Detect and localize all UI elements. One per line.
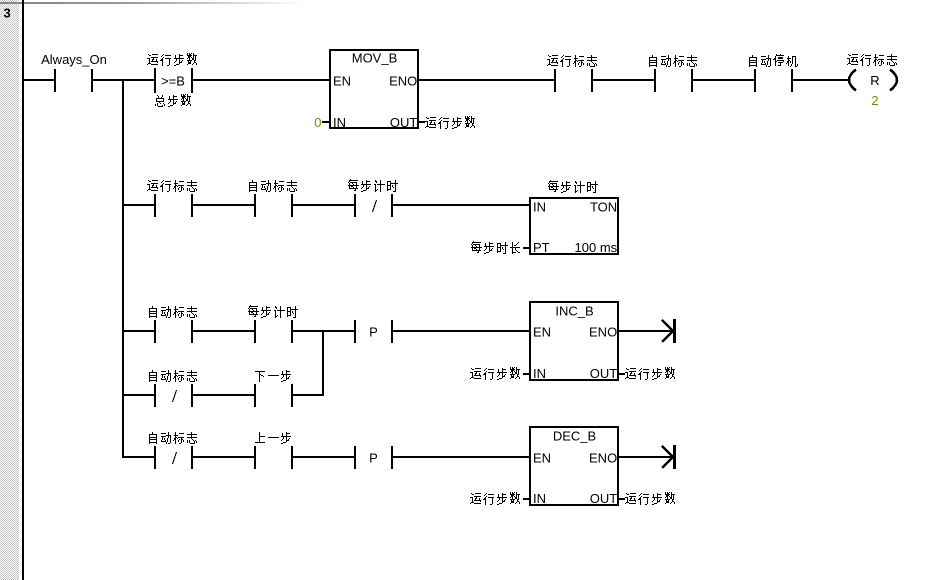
contact 自动标志 rung2 (NO): [249, 180, 297, 217]
svg-text:PT: PT: [533, 240, 550, 255]
wire 运行标志 to contact 自动标志: [593, 79, 654, 81]
svg-text:MOV_B: MOV_B: [352, 51, 398, 66]
svg-text:TON: TON: [590, 200, 617, 215]
contact 自动标志 (NO): [649, 55, 697, 92]
svg-text:OUT: OUT: [590, 491, 618, 506]
network margin strip (dithered): [0, 0, 19, 580]
wire to contact 自动标志 rung2: [193, 204, 254, 206]
left power rail: [22, 0, 24, 580]
svg-text:2: 2: [871, 93, 878, 108]
contact 自动停机 (NO): [749, 54, 798, 92]
wire to contact 上一步: [193, 456, 254, 458]
svg-text:EN: EN: [533, 451, 551, 466]
contact 运行标志 rung2 (NO): [147, 180, 197, 217]
branch power rail (vertical): [122, 79, 124, 458]
wire contact 每步计时 to TON box: [393, 204, 530, 206]
wire to contact 每步计时 rung2: [293, 204, 354, 206]
open branch arrow rung3: [662, 319, 676, 343]
box TON timer 每步计时: [530, 180, 618, 255]
label 运行步数 at DEC_B IN: [470, 492, 520, 505]
svg-text:EN: EN: [333, 74, 351, 89]
svg-text:P: P: [369, 325, 378, 340]
OR branch wire (vertical): [322, 330, 324, 396]
svg-text:OUT: OUT: [590, 366, 618, 381]
label 运行步数 at MOV_B OUT: [425, 116, 475, 129]
svg-text:100 ms: 100 ms: [575, 240, 618, 255]
wire MOV_B ENO to contact 运行标志: [418, 79, 554, 81]
contact 自动标志 rung3 (NO): [149, 306, 197, 343]
contact 每步计时 rung3 (NO): [248, 305, 298, 343]
svg-text:EN: EN: [533, 325, 551, 340]
coil R (reset) 运行标志: [847, 54, 897, 91]
network separator line: [0, 2, 320, 4]
junction node OR branch: [322, 330, 324, 332]
open branch arrow rung4: [662, 445, 676, 469]
wire to contact 每步计时 rung3: [193, 330, 254, 332]
svg-text:IN: IN: [533, 200, 546, 215]
compare contact >=B 运行步数/总步数: [147, 53, 197, 107]
wire 每步计时 to contact P rung3: [293, 330, 354, 332]
label 运行步数 at DEC_B OUT: [625, 492, 675, 505]
svg-text:IN: IN: [533, 491, 546, 506]
tick TON PT parameter: [523, 247, 530, 249]
box MOV_B: [330, 50, 418, 130]
contact 自动标志 rung4 (NC): [149, 432, 197, 469]
tick DEC_B OUT parameter: [618, 498, 625, 500]
junction node branch to lower rungs: [122, 79, 124, 81]
contact P (positive edge) rung4: [354, 446, 393, 469]
wire 下一步 to OR branch: [293, 394, 324, 396]
svg-text:ENO: ENO: [589, 325, 617, 340]
svg-text:OUT: OUT: [390, 115, 418, 130]
tick MOV_B OUT parameter: [418, 121, 425, 123]
svg-text:R: R: [870, 73, 879, 88]
contact Always_On (NO): [41, 52, 107, 92]
tick INC_B OUT parameter: [618, 373, 625, 375]
svg-text:IN: IN: [333, 115, 346, 130]
wire to contact 下一步: [193, 394, 254, 396]
contact 运行标志 (NO): [547, 55, 597, 92]
svg-text:P: P: [369, 451, 378, 466]
wire 自动标志 to contact 自动停机: [693, 79, 754, 81]
wire branch to contact 运行标志 rung2: [124, 204, 154, 206]
wire branch to contact 自动标志 rung4: [124, 456, 154, 458]
contact 每步计时 (NC): [348, 179, 398, 217]
label 运行步数 at INC_B OUT: [625, 367, 675, 380]
wire 上一步 to contact P rung4: [293, 456, 354, 458]
wire 自动停机 to coil: [793, 79, 848, 81]
contact 自动标志 rung3b (NC): [149, 370, 197, 407]
tick MOV_B IN parameter: [322, 121, 330, 123]
svg-text:>=B: >=B: [161, 74, 185, 89]
svg-text:ENO: ENO: [589, 451, 617, 466]
wire compare contact to MOV_B box: [193, 79, 330, 81]
svg-text:IN: IN: [533, 366, 546, 381]
wire branch to contact 自动标志 rung3b: [124, 394, 154, 396]
label 运行步数 at INC_B IN: [470, 367, 520, 380]
wire contact P to DEC_B box: [393, 456, 530, 458]
svg-text:DEC_B: DEC_B: [553, 429, 596, 444]
tick INC_B IN parameter: [523, 373, 530, 375]
wire DEC_B ENO to open branch arrow: [618, 456, 673, 458]
wire INC_B ENO to open branch arrow: [618, 330, 673, 332]
svg-text:3: 3: [4, 6, 11, 21]
label 每步时长 at TON PT: [471, 241, 520, 254]
wire Always_On to compare contact: [93, 79, 154, 81]
box INC_B: [530, 302, 618, 381]
wire contact P to INC_B box: [393, 330, 530, 332]
wire rail to contact Always_On: [24, 79, 54, 81]
contact 下一步 (NO): [254, 370, 293, 407]
box DEC_B: [530, 427, 618, 506]
svg-text:ENO: ENO: [389, 74, 417, 89]
svg-text:INC_B: INC_B: [555, 304, 593, 319]
svg-text:0: 0: [314, 115, 321, 130]
contact P (positive edge) rung3: [354, 320, 393, 343]
wire branch to contact 自动标志 rung3: [124, 330, 154, 332]
svg-text:Always_On: Always_On: [41, 52, 107, 67]
contact 上一步 (NO): [254, 432, 293, 469]
tick DEC_B IN parameter: [523, 498, 530, 500]
